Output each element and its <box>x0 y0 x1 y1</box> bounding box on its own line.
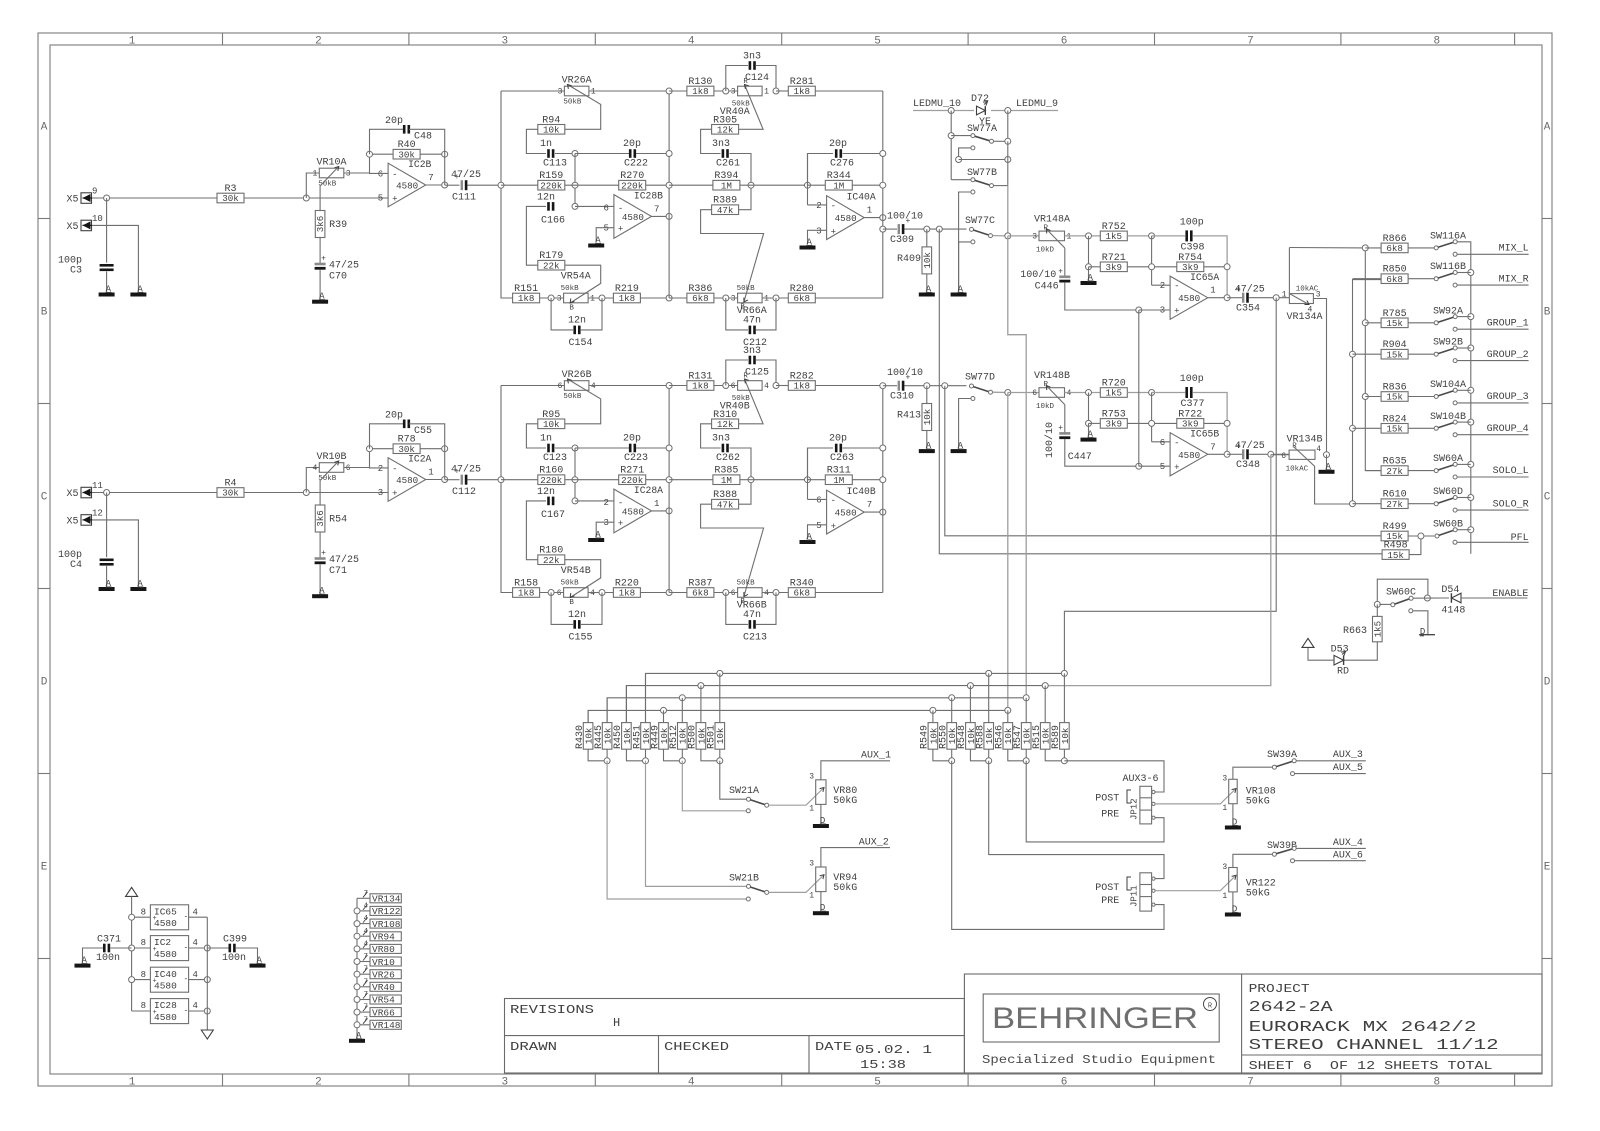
svg-text:E: E <box>1544 862 1551 874</box>
resistor R95 10k <box>526 410 564 448</box>
svg-text:R824: R824 <box>1383 414 1407 425</box>
resistor R281 1k8 <box>776 77 883 97</box>
junction <box>942 383 948 389</box>
net GROUP_2 <box>1453 350 1529 363</box>
svg-text:2: 2 <box>816 201 821 211</box>
capacitor C113 1n <box>540 139 575 170</box>
wire <box>1457 529 1471 531</box>
svg-text:1k5: 1k5 <box>1372 621 1383 638</box>
junction <box>1042 683 1048 689</box>
svg-text:4: 4 <box>193 1001 198 1011</box>
svg-text:4: 4 <box>1067 389 1072 398</box>
svg-text:6: 6 <box>1061 36 1068 48</box>
svg-text:5: 5 <box>1160 462 1165 472</box>
svg-text:VR54: VR54 <box>372 995 395 1006</box>
svg-text:D53: D53 <box>1331 645 1349 656</box>
svg-text:-: - <box>831 201 836 211</box>
svg-text:VR10B: VR10B <box>316 452 346 463</box>
svg-text:SW77D: SW77D <box>965 373 995 384</box>
svg-text:VR54B: VR54B <box>561 566 591 577</box>
wire <box>864 215 886 221</box>
svg-text:6: 6 <box>558 382 563 391</box>
svg-text:GROUP_1: GROUP_1 <box>1487 318 1529 329</box>
ground <box>588 236 604 248</box>
svg-text:3k6: 3k6 <box>315 216 326 233</box>
svg-text:X5: X5 <box>67 516 79 527</box>
capacitor C55 20p <box>370 411 445 449</box>
svg-text:C167: C167 <box>541 510 565 521</box>
wire <box>1457 347 1471 349</box>
resistor R4 30k <box>217 479 244 499</box>
wire <box>244 197 388 199</box>
svg-text:8: 8 <box>141 907 146 917</box>
switch SW39B <box>1267 841 1297 856</box>
resistor R499 15k <box>1381 522 1434 542</box>
svg-text:C309: C309 <box>890 235 914 246</box>
junction <box>1350 351 1356 357</box>
net AUX_6 <box>1291 851 1366 863</box>
svg-text:3: 3 <box>731 295 736 304</box>
resistor R430 10k <box>575 710 595 749</box>
svg-text:6: 6 <box>1281 452 1286 461</box>
svg-text:4: 4 <box>591 382 596 391</box>
junction <box>104 490 110 496</box>
wire <box>808 230 827 244</box>
wire <box>607 698 1026 723</box>
svg-text:100n: 100n <box>222 953 246 964</box>
wire <box>306 468 319 493</box>
junction <box>1350 501 1356 507</box>
svg-text:7: 7 <box>867 500 872 510</box>
svg-text:1: 1 <box>312 170 317 179</box>
junction <box>1268 451 1274 457</box>
junction <box>948 108 954 114</box>
resistor R311 1M <box>808 466 883 486</box>
capacitor C223 20p <box>575 434 669 465</box>
svg-text:AUX_2: AUX_2 <box>859 837 889 848</box>
capacitor C124 3n3 <box>726 52 776 92</box>
net AUX_5 <box>1291 763 1366 776</box>
svg-text:IC28B: IC28B <box>634 191 663 202</box>
wire <box>1045 455 1271 686</box>
capacitor C263 20p <box>808 434 883 480</box>
potentiometer VR108 50kG <box>1155 767 1276 825</box>
svg-text:IC40B: IC40B <box>847 486 876 497</box>
resistor R39 3k6 <box>315 211 347 238</box>
svg-text:-: - <box>1174 438 1179 448</box>
capacitor C155 12n <box>551 593 602 644</box>
svg-text:JP12: JP12 <box>1130 798 1140 820</box>
wire <box>1138 310 1140 466</box>
svg-text:SW104B: SW104B <box>1430 412 1466 423</box>
junction <box>1061 670 1067 676</box>
capacitor C222 20p <box>575 139 669 170</box>
potentiometer VR10B 50kB <box>312 452 350 505</box>
svg-text:AUX_4: AUX_4 <box>1333 838 1363 849</box>
wire <box>950 111 952 180</box>
svg-text:VR26B: VR26B <box>562 370 592 381</box>
junction <box>1468 314 1474 320</box>
svg-text:3n3: 3n3 <box>743 346 761 357</box>
net AUX_1 <box>861 751 891 762</box>
junction <box>924 226 930 232</box>
svg-text:PROJECT: PROJECT <box>1249 983 1310 996</box>
svg-text:DATE: DATE <box>815 1041 852 1054</box>
wire <box>588 749 610 764</box>
svg-text:R850: R850 <box>1383 265 1407 276</box>
svg-text:R663: R663 <box>1343 626 1367 637</box>
svg-text:9: 9 <box>92 187 97 197</box>
ground <box>250 956 266 968</box>
junction <box>1149 390 1155 396</box>
resistor R388 47k <box>701 490 764 596</box>
svg-text:C166: C166 <box>541 216 565 227</box>
svg-text:50kB: 50kB <box>737 285 756 293</box>
svg-text:R753: R753 <box>1102 409 1126 420</box>
svg-text:R498: R498 <box>1384 541 1408 552</box>
svg-text:4580: 4580 <box>835 508 857 519</box>
svg-text:3: 3 <box>501 1077 508 1089</box>
wire <box>1045 749 1067 764</box>
wire <box>666 383 672 593</box>
svg-text:4580: 4580 <box>835 213 857 224</box>
junction <box>1362 394 1368 400</box>
BEHRINGER logo <box>982 994 1219 1067</box>
wire <box>426 449 448 483</box>
potentiometer pin VR108 <box>354 915 401 930</box>
svg-text:100n: 100n <box>96 953 120 964</box>
capacitor C354 47/25 <box>1227 283 1289 314</box>
svg-text:1n: 1n <box>540 434 552 445</box>
wire <box>92 492 217 494</box>
svg-text:5: 5 <box>603 224 608 234</box>
svg-text:-: - <box>184 944 189 953</box>
svg-text:+: + <box>153 978 157 986</box>
ground <box>919 441 935 453</box>
svg-text:20p: 20p <box>829 139 847 150</box>
svg-text:3: 3 <box>558 88 563 97</box>
svg-text:R344: R344 <box>827 171 851 182</box>
resistor R389 47k <box>701 196 764 302</box>
svg-text:VR40: VR40 <box>372 982 395 993</box>
svg-text:+: + <box>153 1009 157 1017</box>
svg-text:2: 2 <box>1160 281 1165 291</box>
capacitor C213 47n <box>726 593 776 644</box>
svg-text:20p: 20p <box>829 434 847 445</box>
wire <box>1353 280 1382 504</box>
svg-text:8: 8 <box>141 970 146 980</box>
ground <box>130 285 146 297</box>
svg-text:47/25: 47/25 <box>451 464 481 476</box>
potentiometer pin VR148 <box>354 1016 401 1031</box>
wire <box>131 896 133 1011</box>
resistor R445 10k <box>594 698 614 749</box>
svg-text:1: 1 <box>129 36 136 48</box>
svg-text:10k: 10k <box>984 727 995 744</box>
wire <box>319 532 321 559</box>
junction <box>442 446 448 452</box>
svg-text:3n3: 3n3 <box>712 434 730 445</box>
svg-text:VR148B: VR148B <box>1034 371 1070 382</box>
svg-text:2: 2 <box>378 464 383 474</box>
resistor R219 1k8 <box>588 284 672 304</box>
wire <box>808 448 827 499</box>
junction <box>498 477 504 483</box>
svg-text:PRE: PRE <box>1101 896 1119 907</box>
svg-text:6: 6 <box>1061 1077 1068 1089</box>
wire <box>626 686 1045 723</box>
wire <box>1008 236 1026 698</box>
resistor R501 10k <box>707 673 727 749</box>
revisions table <box>505 999 965 1074</box>
svg-text:C71: C71 <box>329 566 347 577</box>
svg-text:20p: 20p <box>385 411 403 422</box>
resistor R515 10k <box>1032 686 1052 750</box>
svg-text:R160: R160 <box>539 466 563 477</box>
svg-text:R720: R720 <box>1102 379 1126 390</box>
svg-text:C222: C222 <box>624 159 648 170</box>
wire <box>808 154 827 205</box>
svg-text:8: 8 <box>141 1001 146 1011</box>
svg-text:100p: 100p <box>1180 217 1204 228</box>
resistor R394 1M <box>669 171 807 191</box>
svg-text:R904: R904 <box>1383 340 1407 351</box>
svg-text:VR26A: VR26A <box>562 76 592 87</box>
resistor R722 3k9 <box>1152 409 1231 429</box>
svg-text:1: 1 <box>809 805 814 814</box>
svg-text:3: 3 <box>501 36 508 48</box>
svg-text:3: 3 <box>1222 775 1227 784</box>
svg-text:1: 1 <box>1210 286 1215 296</box>
svg-text:3: 3 <box>346 170 351 179</box>
svg-text:100/10: 100/10 <box>1020 269 1056 281</box>
junction <box>1362 245 1368 251</box>
switch SW116A <box>1430 231 1466 250</box>
junction <box>748 182 754 188</box>
svg-text:+: + <box>392 489 397 499</box>
switch SW116B <box>1430 262 1466 281</box>
svg-text:-: - <box>184 913 189 922</box>
junction <box>1136 307 1142 313</box>
svg-text:JP11: JP11 <box>1130 885 1140 907</box>
svg-text:GROUP_3: GROUP_3 <box>1487 392 1529 403</box>
junction <box>661 707 667 713</box>
svg-text:VR26: VR26 <box>372 969 395 980</box>
svg-text:R220: R220 <box>615 579 639 590</box>
net AUX_3 <box>1296 750 1366 761</box>
svg-text:IC65A: IC65A <box>1190 272 1219 283</box>
svg-text:7: 7 <box>1247 1077 1254 1089</box>
junction <box>773 383 779 389</box>
svg-text:VR108: VR108 <box>372 919 401 930</box>
potentiometer pin VR66 <box>354 1004 401 1019</box>
svg-text:4: 4 <box>688 1077 695 1089</box>
junction <box>1350 425 1356 431</box>
svg-text:B: B <box>569 599 574 607</box>
svg-text:47/25: 47/25 <box>451 169 481 181</box>
wire <box>1007 186 1009 236</box>
svg-text:SW60B: SW60B <box>1433 520 1463 531</box>
wire <box>501 386 513 593</box>
svg-text:R219: R219 <box>615 284 639 295</box>
svg-text:VR148: VR148 <box>372 1020 401 1031</box>
op-amp IC28B 4580 <box>603 191 663 239</box>
svg-text:R388: R388 <box>713 490 737 501</box>
op-amp IC65A 4580 <box>1160 272 1220 319</box>
svg-text:SOLO_R: SOLO_R <box>1493 499 1529 510</box>
wire <box>1149 236 1171 285</box>
wire <box>1007 393 1009 711</box>
svg-text:AUX_6: AUX_6 <box>1333 851 1363 862</box>
jumper JP12 <box>1095 774 1158 824</box>
svg-text:R78: R78 <box>398 435 416 446</box>
ground <box>813 903 829 915</box>
net PFL <box>1453 533 1529 544</box>
capacitor C398 100p <box>1152 217 1228 298</box>
svg-text:3: 3 <box>731 88 736 97</box>
svg-text:47n: 47n <box>743 610 761 621</box>
svg-text:A: A <box>1544 122 1551 134</box>
capacitor C310 100/10 <box>880 367 967 403</box>
ground <box>813 816 829 828</box>
capacitor C371 100n <box>83 935 132 965</box>
svg-text:6: 6 <box>603 203 608 213</box>
junction <box>1468 419 1474 425</box>
resistor R179 22k <box>538 251 601 303</box>
wire <box>501 91 513 298</box>
IC IC40 power 4580 <box>129 967 211 992</box>
svg-text:5: 5 <box>378 194 383 204</box>
diode D54 4148 <box>1429 585 1491 617</box>
junction <box>1424 595 1430 601</box>
svg-text:8: 8 <box>1433 36 1440 48</box>
capacitor C261 3n3 <box>712 139 751 210</box>
resistor R866 6k8 <box>1365 234 1434 254</box>
svg-text:6: 6 <box>378 169 383 179</box>
svg-text:-: - <box>1174 282 1179 292</box>
svg-text:C154: C154 <box>569 338 593 349</box>
switch SW77D <box>965 373 1011 396</box>
junction <box>367 446 373 452</box>
svg-text:VR10: VR10 <box>372 957 395 968</box>
junction <box>1468 527 1474 533</box>
connector X5 pin 11 <box>67 481 103 500</box>
svg-text:R721: R721 <box>1102 253 1126 264</box>
potentiometer VR80 50kG <box>769 761 890 824</box>
svg-text:3n3: 3n3 <box>743 52 761 63</box>
svg-text:3: 3 <box>816 226 821 236</box>
svg-text:Specialized Studio Equipment: Specialized Studio Equipment <box>982 1054 1216 1067</box>
potentiometer pin VR94 <box>354 928 401 943</box>
svg-text:C48: C48 <box>414 132 432 143</box>
ground <box>349 1031 365 1043</box>
svg-text:4580: 4580 <box>396 475 418 486</box>
ground <box>1225 905 1241 917</box>
resistor R180 22k <box>538 546 601 598</box>
net MIX_R <box>1453 274 1529 287</box>
resistor R160 220k <box>501 466 619 486</box>
svg-text:10k: 10k <box>922 408 933 425</box>
svg-text:R54: R54 <box>329 515 347 526</box>
power arrow <box>126 887 138 896</box>
junction <box>572 151 578 157</box>
svg-text:1: 1 <box>1222 892 1227 901</box>
potentiometer VR134A 10kAC <box>1282 248 1323 324</box>
svg-text:C354: C354 <box>1236 304 1260 315</box>
svg-text:+: + <box>831 522 836 532</box>
svg-text:1: 1 <box>764 295 769 304</box>
wire <box>1289 247 1365 249</box>
svg-text:R413: R413 <box>897 411 921 422</box>
capacitor C112 47/25 <box>445 464 501 499</box>
wire <box>959 240 975 293</box>
wire <box>682 761 746 811</box>
wire <box>1008 749 1029 764</box>
svg-text:4580: 4580 <box>154 918 177 929</box>
wire <box>356 898 358 1039</box>
svg-text:C446: C446 <box>1035 282 1059 293</box>
resistor R500 10k <box>688 686 708 750</box>
svg-text:D: D <box>1544 677 1551 689</box>
svg-text:7: 7 <box>654 204 659 214</box>
svg-text:VR134B: VR134B <box>1287 435 1323 446</box>
svg-text:3: 3 <box>1160 306 1165 316</box>
wire <box>344 172 370 174</box>
wire <box>1208 451 1230 457</box>
wire <box>956 141 1011 185</box>
wire <box>1064 761 1164 792</box>
net GROUP_1 <box>1453 318 1529 331</box>
svg-text:+: + <box>153 946 157 954</box>
svg-text:1: 1 <box>764 88 769 97</box>
svg-text:C261: C261 <box>716 159 740 170</box>
svg-text:C223: C223 <box>624 453 648 464</box>
capacitor C212 47n <box>726 298 776 349</box>
svg-text:8: 8 <box>141 938 146 948</box>
svg-text:EURORACK MX 2642/2: EURORACK MX 2642/2 <box>1249 1020 1477 1036</box>
svg-text:SW21A: SW21A <box>729 786 759 797</box>
op-amp IC2B 4580 <box>378 159 434 207</box>
wire <box>1413 597 1443 599</box>
resistor R547 10k <box>1013 698 1033 749</box>
svg-text:4148: 4148 <box>1441 606 1465 617</box>
op-amp IC2A 4580 <box>378 454 434 502</box>
potentiometer VR54A 50kB <box>557 272 595 313</box>
potentiometer VR66B 50kB <box>731 580 769 612</box>
net LEDMU_10 <box>913 99 961 111</box>
svg-text:7: 7 <box>1210 442 1215 452</box>
svg-text:R130: R130 <box>688 77 712 88</box>
svg-text:1: 1 <box>809 892 814 901</box>
title block <box>964 974 1542 1073</box>
svg-text:SW77A: SW77A <box>967 124 997 135</box>
svg-text:C348: C348 <box>1236 460 1260 471</box>
power arrow <box>1302 638 1314 647</box>
svg-text:5: 5 <box>816 521 821 531</box>
switch SW60D <box>1433 487 1463 506</box>
wire <box>626 749 648 764</box>
svg-text:A: A <box>41 122 48 134</box>
svg-text:AUX_1: AUX_1 <box>861 751 891 762</box>
junction <box>572 445 578 451</box>
potentiometer pin VR10 <box>354 953 401 968</box>
svg-text:IC65: IC65 <box>154 906 177 917</box>
svg-text:GROUP_4: GROUP_4 <box>1487 424 1529 435</box>
svg-text:6: 6 <box>1032 389 1037 398</box>
resistor R282 1k8 <box>776 372 883 392</box>
potentiometer VR26A 50kB <box>501 76 669 130</box>
capacitor C154 12n <box>551 298 602 349</box>
